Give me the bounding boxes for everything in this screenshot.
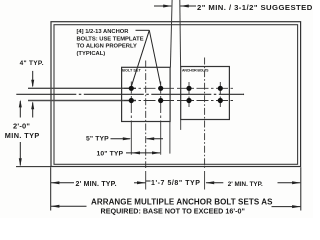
dimension 4in typ upper arrow (32, 71, 34, 86)
left plate vertical centerline (145, 61, 147, 169)
svg-text:10" TYP: 10" TYP (97, 150, 124, 157)
dimension 5in typ right leader arrow (147, 138, 164, 140)
right plate left edge extension below (180, 120, 182, 130)
extension line left edge of plate gap (170, 0, 172, 67)
bottom dim extension line left (50, 167, 52, 210)
right plate bolt column lines (188, 82, 190, 107)
lower overall dim right arrow (272, 206, 301, 208)
extension line right edge of plate gap (179, 0, 182, 67)
left base plate (122, 67, 171, 121)
left plate bolt column lines (130, 82, 132, 122)
bottom dimension arrow right of right centerline (206, 182, 223, 184)
svg-text:2' MIN. TYP.: 2' MIN. TYP. (228, 181, 263, 188)
dimension 2ft0 min arrow up (19, 101, 21, 118)
svg-text:MIN. TYP: MIN. TYP (5, 131, 40, 140)
svg-text:[4] 1/2-13 ANCHOR: [4] 1/2-13 ANCHOR (77, 29, 130, 35)
bottom dimension 2ft min right line arrow (278, 182, 301, 184)
dimension 4in typ lower arrow (32, 102, 34, 117)
left plate bolts (129, 86, 134, 91)
bolt row extension line upper from left margin (28, 87, 136, 89)
left plate bolt column extensions below (130, 122, 132, 155)
svg-text:BOLT SET: BOLT SET (122, 69, 141, 73)
right plate vertical centerline (204, 58, 206, 169)
note leader horizontal (136, 29, 150, 31)
horizontal centerline through both plates (16, 93, 242, 95)
right base plate (181, 67, 230, 120)
right plate bolt row dashlines (177, 87, 233, 89)
left plate right edge extension below (169, 122, 171, 154)
svg-text:REQUIRED: BASE NOT TO EXCEED 1: REQUIRED: BASE NOT TO EXCEED 16'-0" (101, 206, 245, 215)
dimension 5in typ left leader arrow (111, 138, 131, 140)
svg-text:4" TYP.: 4" TYP. (20, 60, 44, 67)
base outline outer rect (51, 22, 301, 167)
bottom dim extension line right (300, 167, 302, 210)
bolt row extension line lower from left margin (28, 100, 136, 102)
top dimension leader right (180, 5, 196, 7)
dimension 2ft0 min arrow down (19, 142, 21, 165)
bottom dimension 2ft min left: line and arrows (51, 182, 74, 184)
svg-text:BOLTS: USE TEMPLATE: BOLTS: USE TEMPLATE (77, 36, 144, 42)
base outline inner rect (54, 25, 298, 165)
dimension 10in typ line with arrows (126, 152, 160, 154)
left plate bolt row dashlines (124, 87, 174, 89)
dimension 2ft0 bottom tick (16, 166, 51, 168)
top dimension leader left (154, 5, 171, 7)
right plate bolts (186, 86, 191, 91)
svg-text:5" TYP: 5" TYP (86, 135, 109, 142)
lower overall dim left arrow (51, 205, 87, 207)
svg-text:TO ALIGN PROPERLY: TO ALIGN PROPERLY (77, 44, 137, 50)
note leader leg to right bolt (149, 30, 160, 85)
bottom dimension 1ft7-5/8 tick (146, 180, 151, 182)
svg-text:2' MIN. TYP.: 2' MIN. TYP. (76, 181, 117, 188)
svg-text:1'-7 5/8" TYP: 1'-7 5/8" TYP (151, 180, 201, 187)
svg-text:ARRANGE MULTIPLE ANCHOR BOLT S: ARRANGE MULTIPLE ANCHOR BOLT SETS AS (91, 197, 273, 206)
svg-text:2'-0": 2'-0" (13, 121, 30, 130)
svg-text:(TYPICAL): (TYPICAL) (77, 51, 106, 57)
note leader leg to left bolt (131, 30, 149, 86)
svg-text:2" MIN. / 3-1/2" SUGGESTED: 2" MIN. / 3-1/2" SUGGESTED (197, 3, 313, 12)
